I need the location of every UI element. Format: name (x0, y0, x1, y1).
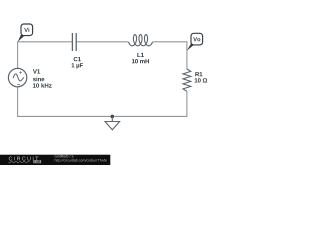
watermark text line 1 (55, 155, 74, 158)
ground triangle (105, 122, 120, 130)
voltage source V1 sine wave (13, 74, 24, 81)
wire right vertical upper (186, 42, 188, 69)
node flag Vi text (24, 28, 29, 32)
capacitor C1 plates (72, 33, 76, 51)
node flag Vi tail (18, 34, 24, 42)
voltage source plus sign (19, 71, 21, 73)
label R1 (195, 72, 202, 76)
watermark logo CIRCUIT (9, 157, 39, 161)
watermark text line 2 (55, 159, 107, 162)
watermark logo LAB block (33, 160, 41, 163)
node flag Vi box (21, 24, 33, 36)
wire top: L1 to node Vo corner (153, 41, 188, 43)
voltage source minus sign (17, 84, 20, 86)
wire left vertical upper (17, 41, 19, 68)
watermark logo sine (9, 161, 30, 163)
wire top: node Vi to C1 (18, 41, 72, 43)
label C1 (74, 57, 81, 61)
wire left vertical lower (17, 87, 19, 117)
ground junction dot (111, 115, 115, 119)
wire right vertical lower (186, 91, 188, 117)
label L1 (137, 53, 143, 57)
label R1 value (195, 78, 207, 82)
ground stub (111, 116, 113, 121)
label V1 value 10 kHz (33, 83, 52, 87)
label L1 value (132, 59, 149, 63)
watermark bar (0, 155, 110, 165)
node flag Vo tail (187, 42, 194, 51)
voltage source V1 circle (8, 68, 26, 86)
inductor L1 coil (129, 35, 153, 46)
node flag Vo text (193, 37, 200, 41)
label V1 (33, 69, 40, 73)
label V1 value sine (33, 77, 44, 81)
wire bottom (17, 115, 187, 117)
label C1 value (72, 63, 83, 68)
resistor R1 zigzag (183, 69, 191, 91)
wire top: C1 to L1 (77, 41, 129, 43)
node flag Vo box (191, 33, 203, 45)
